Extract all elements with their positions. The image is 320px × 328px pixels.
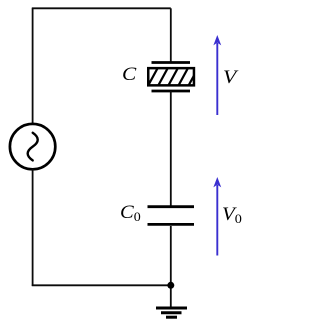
label V0 bbox=[222, 204, 242, 227]
wire top horizontal bbox=[32, 7, 171, 9]
capacitor C0 top plate bbox=[148, 205, 195, 208]
AC source V1 bbox=[10, 124, 55, 169]
label V bbox=[223, 67, 236, 89]
capacitor C0 bottom plate bbox=[148, 223, 195, 226]
label C0 bbox=[120, 202, 141, 225]
ground bbox=[156, 308, 187, 317]
wire capacitor to ground bbox=[170, 226, 172, 308]
label C bbox=[122, 64, 136, 86]
crystal C top plate bbox=[152, 61, 191, 64]
wire crystal to capacitor bbox=[170, 91, 172, 207]
wire left lower vertical bbox=[32, 169, 34, 286]
junction node bbox=[167, 282, 174, 289]
arrow V0 bbox=[214, 178, 221, 256]
wire left upper vertical bbox=[32, 8, 34, 124]
crystal C bottom plate bbox=[152, 90, 191, 93]
wire bottom horizontal bbox=[32, 284, 171, 286]
crystal C body (hatched) bbox=[147, 66, 199, 88]
arrow V bbox=[214, 36, 221, 115]
wire right top vertical bbox=[170, 8, 172, 63]
